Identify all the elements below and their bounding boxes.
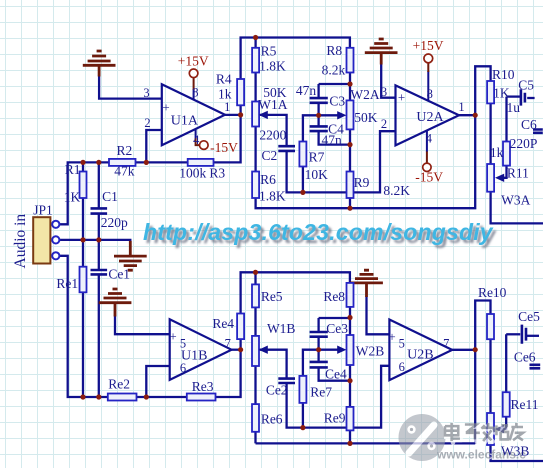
wire U1A output bbox=[225, 38, 350, 115]
resistor Re11 bbox=[503, 392, 510, 417]
wire R5 top stub bbox=[254, 38, 256, 48]
wire node to W2A wiper bbox=[319, 114, 343, 116]
JP1 pin 2 circle bbox=[52, 236, 59, 243]
node R8 bottom bbox=[347, 81, 352, 86]
svg-text:1k: 1k bbox=[218, 86, 232, 101]
resistor Re2 bbox=[108, 394, 137, 401]
svg-text:8.2K: 8.2K bbox=[383, 183, 410, 198]
svg-text:Re4: Re4 bbox=[212, 316, 234, 331]
ground GND4 (U1B pin5) bbox=[99, 289, 132, 317]
svg-text:6: 6 bbox=[399, 360, 405, 374]
resistor R3 bbox=[188, 159, 214, 166]
svg-text:Ce2: Ce2 bbox=[266, 382, 288, 397]
svg-text:R10: R10 bbox=[492, 67, 515, 82]
svg-text:Re6: Re6 bbox=[261, 412, 283, 427]
wire C4 bottom link bbox=[319, 131, 350, 145]
svg-text:1u: 1u bbox=[506, 100, 520, 115]
wire U2A pin8 stem bbox=[427, 71, 429, 101]
power port circle +15V U1A bbox=[189, 69, 198, 78]
svg-text:Re5: Re5 bbox=[261, 289, 283, 304]
wire Re4 column and bottom top rail bbox=[241, 272, 350, 349]
resistor R8 bbox=[347, 48, 354, 73]
watermark url text bbox=[143, 219, 543, 246]
node R7 bottom bbox=[300, 190, 305, 195]
svg-text:R8: R8 bbox=[326, 43, 342, 58]
svg-text:Ce1: Ce1 bbox=[108, 267, 130, 282]
power port circle -15V U2A bbox=[423, 163, 431, 171]
potentiometer W3A body bbox=[487, 164, 494, 192]
svg-text:W1B: W1B bbox=[267, 321, 296, 336]
capacitor Ce1 bbox=[91, 270, 108, 274]
svg-text:U1A: U1A bbox=[171, 113, 199, 128]
svg-text:100k: 100k bbox=[179, 166, 206, 181]
svg-text:47k: 47k bbox=[114, 164, 135, 179]
svg-text:JP1: JP1 bbox=[33, 202, 53, 217]
node Re8 bottom bbox=[347, 315, 352, 320]
capacitor Ce4 bbox=[310, 362, 328, 368]
wire U2B pin5 from ground bbox=[367, 296, 390, 334]
node Re5 top bbox=[253, 270, 258, 275]
svg-text:C1: C1 bbox=[102, 189, 118, 204]
wire C1 column bbox=[98, 162, 100, 208]
wiper arrow W2A bbox=[337, 111, 346, 119]
ground GND2 (JP1 middle pin) bbox=[114, 241, 147, 270]
capacitor Ce5 bbox=[522, 325, 526, 344]
wire node to W2B wiper bbox=[319, 349, 343, 351]
node C3-C4-R7-wiper bbox=[316, 113, 321, 118]
node R1 top bbox=[80, 160, 85, 165]
node Re9 bottom bbox=[347, 441, 352, 446]
svg-text:50K: 50K bbox=[354, 110, 378, 125]
wire Re11 column to W3B wiper bbox=[500, 334, 506, 429]
svg-text:R9: R9 bbox=[354, 175, 370, 190]
svg-text:U2A: U2A bbox=[416, 110, 444, 125]
wire C2 to rail A to U2A pin2 bbox=[287, 131, 396, 192]
resistor R7 bbox=[299, 142, 306, 167]
svg-text:R1: R1 bbox=[65, 162, 81, 177]
watermark CJK char dian bbox=[445, 423, 523, 441]
svg-text:W3A: W3A bbox=[501, 193, 530, 208]
node Re1 bottom bbox=[80, 394, 85, 399]
JP1 pin 1 circle bbox=[52, 221, 59, 228]
svg-text:1k: 1k bbox=[490, 145, 504, 160]
svg-text:R2: R2 bbox=[117, 143, 133, 158]
node U2A output bbox=[473, 113, 478, 118]
node R5 top bbox=[253, 35, 258, 40]
svg-text:Re11: Re11 bbox=[511, 397, 539, 412]
svg-text:47n: 47n bbox=[296, 83, 317, 98]
node U1A output bbox=[238, 112, 243, 117]
potentiometer W1B body bbox=[252, 336, 259, 366]
wire R5-W1A-R6 column and rail B bbox=[256, 73, 476, 209]
power -15V stem U2A bbox=[426, 152, 428, 164]
wire Ce4 bottom link bbox=[319, 367, 350, 380]
svg-text:7: 7 bbox=[443, 336, 449, 350]
wire C3 top link bbox=[319, 83, 350, 85]
wire U2A pin4 stem bbox=[426, 131, 428, 153]
wire Ce5 left bbox=[506, 333, 520, 335]
wire input rail to U1A output column bbox=[59, 115, 240, 224]
capacitor C1 bbox=[91, 208, 108, 213]
resistor R2 bbox=[109, 159, 136, 166]
resistor Re9 bbox=[347, 407, 354, 431]
power +15V stem U2A bbox=[427, 63, 429, 72]
wiper arrow W1A bbox=[259, 111, 268, 119]
wire U1B output bbox=[232, 349, 241, 351]
wire C5 left bbox=[507, 95, 521, 97]
wire Ce3-Ce4 node bbox=[317, 337, 319, 362]
svg-text:C6: C6 bbox=[521, 117, 537, 132]
ground GND3 (U2A pin3) bbox=[365, 39, 398, 65]
node pin6 branch bbox=[144, 394, 149, 399]
svg-text:8: 8 bbox=[192, 85, 198, 99]
wire U2A output bbox=[459, 66, 543, 223]
wire C1 to node bbox=[98, 214, 100, 270]
svg-text:2: 2 bbox=[144, 116, 150, 130]
watermark CJK white halo bbox=[446, 424, 524, 442]
svg-text:C2: C2 bbox=[262, 148, 278, 163]
connector JP1 bbox=[33, 217, 50, 263]
svg-text:Re2: Re2 bbox=[108, 377, 130, 392]
power +15V stem U1A bbox=[193, 78, 195, 90]
svg-text:R4: R4 bbox=[216, 72, 232, 87]
svg-text:R11: R11 bbox=[507, 166, 529, 181]
node C1-Ce1 mid bbox=[96, 237, 101, 242]
svg-text:2200: 2200 bbox=[259, 128, 286, 143]
resistor R6 bbox=[252, 172, 259, 199]
svg-text:2: 2 bbox=[381, 117, 387, 131]
svg-text:Re8: Re8 bbox=[323, 289, 345, 304]
svg-text:220P: 220P bbox=[510, 136, 538, 151]
svg-text:Audio in: Audio in bbox=[12, 214, 29, 269]
wire R7 column bbox=[303, 115, 319, 192]
power port circle +15V U2A bbox=[424, 54, 433, 63]
op-amp U2B bbox=[389, 320, 452, 381]
wire U2A pin3 from ground bbox=[381, 64, 395, 98]
capacitor C2 bbox=[278, 146, 295, 151]
node W2B bottom bbox=[347, 378, 352, 383]
op-amp U1A bbox=[162, 84, 225, 145]
svg-text:+: + bbox=[169, 329, 176, 344]
watermark CJK char you bbox=[510, 423, 523, 440]
node W2A bottom bbox=[347, 142, 352, 147]
power port circle -15V U1A bbox=[200, 141, 209, 150]
svg-text:10K: 10K bbox=[305, 167, 329, 182]
node pin2 branch bbox=[144, 160, 149, 165]
capacitor C3 bbox=[310, 98, 328, 103]
svg-text:C5: C5 bbox=[518, 78, 534, 93]
svg-text:C3: C3 bbox=[329, 94, 345, 109]
wire C5 right stub bbox=[527, 97, 534, 99]
svg-text:R6: R6 bbox=[260, 172, 276, 187]
wire Ce2 to rail Aprime to U2B pin6 bbox=[287, 366, 390, 428]
svg-text:W2B: W2B bbox=[356, 344, 385, 359]
svg-text:4: 4 bbox=[193, 133, 200, 147]
svg-text:-15V: -15V bbox=[210, 140, 238, 155]
svg-text:3: 3 bbox=[381, 85, 387, 99]
wiper arrow W2B bbox=[337, 346, 346, 354]
svg-text:W1A: W1A bbox=[258, 97, 287, 112]
node Re7 bottom bbox=[300, 425, 305, 430]
svg-text:Ce4: Ce4 bbox=[325, 366, 347, 381]
JP1 pin 3 circle bbox=[52, 252, 59, 259]
watermark CJK char fa bbox=[482, 423, 495, 441]
watermark CJK char zi bbox=[465, 424, 480, 439]
svg-text:1.8K: 1.8K bbox=[259, 59, 286, 74]
wire Ce1 column bbox=[98, 274, 100, 397]
svg-text:4: 4 bbox=[426, 132, 433, 146]
wire U1B pin6 branch bbox=[146, 366, 169, 397]
node R1-Re1 mid bbox=[80, 237, 85, 242]
node R9 bottom bbox=[347, 206, 352, 211]
resistor Re4 bbox=[237, 314, 244, 340]
resistor R4 bbox=[237, 79, 244, 105]
svg-text:+: + bbox=[162, 100, 169, 115]
capacitor C5 bbox=[521, 89, 525, 105]
svg-text:1: 1 bbox=[224, 100, 230, 114]
resistor Re1 bbox=[80, 267, 87, 293]
wire U2B output to rail Bprime bbox=[474, 350, 476, 444]
ground GND5 (U2B pin5) bbox=[350, 270, 383, 297]
node Ce3-Ce4-Re7-wiper bbox=[316, 347, 321, 352]
capacitor Ce6 bbox=[530, 365, 541, 369]
svg-text:U2B: U2B bbox=[407, 348, 433, 363]
svg-text:1: 1 bbox=[458, 100, 464, 114]
svg-text:Ce5: Ce5 bbox=[518, 309, 540, 324]
wire R8-W2A-R9 column bbox=[349, 73, 351, 209]
wire C3-C4 node bbox=[317, 103, 319, 127]
wire JP1 bottom pin to bottom rail bbox=[59, 256, 240, 397]
svg-text:R7: R7 bbox=[309, 150, 325, 165]
potentiometer W3B body bbox=[487, 413, 494, 445]
svg-text:7: 7 bbox=[225, 337, 231, 351]
resistor Re3 bbox=[187, 394, 216, 401]
wiper arrow W1B bbox=[259, 346, 268, 354]
svg-text:5: 5 bbox=[399, 337, 405, 351]
capacitor Ce3 bbox=[310, 332, 328, 337]
svg-text:1.8K: 1.8K bbox=[259, 189, 286, 204]
label W3B bbox=[501, 444, 530, 459]
node C1 top bbox=[96, 160, 101, 165]
wire rail Bprime bbox=[256, 442, 476, 444]
svg-text:-15V: -15V bbox=[415, 169, 443, 184]
svg-text:Ce6: Ce6 bbox=[514, 349, 536, 364]
wire W1B wiper to Ce2 bbox=[259, 350, 287, 379]
svg-text:Re9: Re9 bbox=[324, 411, 346, 426]
svg-text:W3B: W3B bbox=[501, 444, 530, 459]
wire U2B output bbox=[452, 301, 543, 462]
wire R1/Re1 column bbox=[82, 162, 84, 397]
wire C3 upper stub bbox=[317, 84, 319, 98]
node U1B output bbox=[238, 347, 243, 352]
wire Ce5 right stub bbox=[527, 335, 539, 337]
svg-text:R5: R5 bbox=[261, 43, 277, 58]
capacitor C6 bbox=[533, 130, 543, 133]
wire U1B pin5 from ground bbox=[115, 316, 170, 335]
resistor R10 bbox=[487, 81, 494, 103]
resistor R11 bbox=[503, 142, 510, 166]
resistor Re6 bbox=[252, 404, 259, 432]
wire R11 column to W3A wiper bbox=[500, 97, 507, 178]
svg-text:W2A: W2A bbox=[350, 87, 379, 102]
svg-text:8: 8 bbox=[427, 87, 433, 101]
op-amp U2A bbox=[396, 85, 460, 145]
wire U1A pin8 stem bbox=[193, 89, 195, 100]
svg-text:Re1: Re1 bbox=[56, 276, 78, 291]
resistor Re8 bbox=[347, 283, 354, 307]
wire Re8-W2B-Re9 column bbox=[349, 307, 351, 444]
wire W1A wiper to C2 bbox=[259, 115, 287, 146]
resistor R1 bbox=[80, 172, 87, 199]
wire JP1 middle pin to ground bbox=[59, 240, 130, 248]
svg-text:U1B: U1B bbox=[181, 348, 207, 363]
wire Ce3 top link bbox=[319, 317, 350, 319]
op-amp U1B bbox=[170, 319, 232, 380]
svg-text:Re10: Re10 bbox=[478, 285, 507, 300]
svg-text:Re7: Re7 bbox=[310, 385, 332, 400]
wire Re5-W1B-Re6 column bbox=[254, 272, 256, 443]
resistor Re10 bbox=[487, 314, 494, 339]
svg-text:+15V: +15V bbox=[413, 38, 444, 53]
capacitor Ce2 bbox=[278, 379, 295, 383]
watermark logo circle bbox=[399, 414, 446, 461]
wire Re7 column bbox=[303, 350, 319, 428]
ground GND1 (U1A pin3) bbox=[83, 51, 116, 77]
svg-text:8.2k: 8.2k bbox=[322, 63, 346, 78]
node Ce1 bottom bbox=[96, 394, 101, 399]
wiper arrow W3A bbox=[495, 174, 504, 182]
svg-text:R3: R3 bbox=[209, 166, 225, 181]
capacitor C4 bbox=[310, 126, 328, 131]
svg-text:3: 3 bbox=[143, 86, 149, 100]
wire U1A pin3 from ground bbox=[99, 76, 162, 99]
wire Ce3 upper stub bbox=[317, 318, 319, 332]
potentiometer W2B body bbox=[347, 335, 354, 365]
wire U1A pin4 stem bbox=[195, 129, 197, 139]
potentiometer W1A body bbox=[252, 102, 259, 127]
svg-text:Ce3: Ce3 bbox=[326, 321, 348, 336]
svg-text:1K: 1K bbox=[64, 190, 81, 205]
svg-text:+15V: +15V bbox=[178, 53, 209, 68]
wiper arrow W3B bbox=[495, 425, 504, 433]
svg-text:Re3: Re3 bbox=[192, 379, 214, 394]
node U2B output bbox=[473, 347, 478, 352]
svg-text:1K: 1K bbox=[493, 85, 510, 100]
potentiometer W2A body bbox=[347, 100, 354, 129]
power -15V stem U1A bbox=[196, 138, 200, 145]
svg-text:47n: 47n bbox=[321, 132, 342, 147]
svg-text:220p: 220p bbox=[101, 215, 128, 230]
watermark CJK char shao bbox=[493, 425, 508, 439]
svg-text:+: + bbox=[388, 329, 395, 344]
resistor Re7 bbox=[299, 376, 306, 403]
svg-text:+: + bbox=[398, 89, 405, 104]
resistor Re5 bbox=[252, 284, 259, 307]
resistor R5 bbox=[252, 48, 259, 73]
wire U1A pin2 branch bbox=[146, 130, 162, 162]
resistor R9 bbox=[347, 172, 354, 199]
